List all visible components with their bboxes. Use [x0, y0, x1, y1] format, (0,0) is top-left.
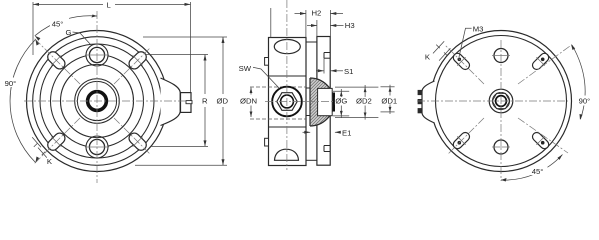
svg-text:ØD: ØD	[217, 97, 229, 106]
svg-text:ØDN: ØDN	[240, 96, 257, 105]
svg-text:45°: 45°	[52, 20, 64, 29]
svg-text:R: R	[202, 97, 208, 106]
svg-text:H3: H3	[345, 21, 355, 30]
svg-text:M3: M3	[473, 25, 484, 34]
svg-text:90°: 90°	[579, 97, 591, 106]
svg-text:K: K	[425, 52, 431, 61]
svg-text:H2: H2	[312, 9, 322, 18]
svg-text:SW: SW	[239, 64, 252, 73]
svg-text:S1: S1	[344, 67, 353, 76]
svg-text:E1: E1	[342, 128, 351, 137]
svg-text:ØD2: ØD2	[356, 96, 372, 105]
svg-text:90°: 90°	[5, 79, 17, 88]
svg-text:ØG: ØG	[335, 97, 347, 106]
svg-text:45°: 45°	[532, 167, 544, 176]
svg-text:K: K	[47, 157, 53, 166]
svg-text:L: L	[107, 0, 112, 9]
svg-text:G: G	[66, 28, 72, 37]
svg-text:ØD1: ØD1	[381, 96, 397, 105]
